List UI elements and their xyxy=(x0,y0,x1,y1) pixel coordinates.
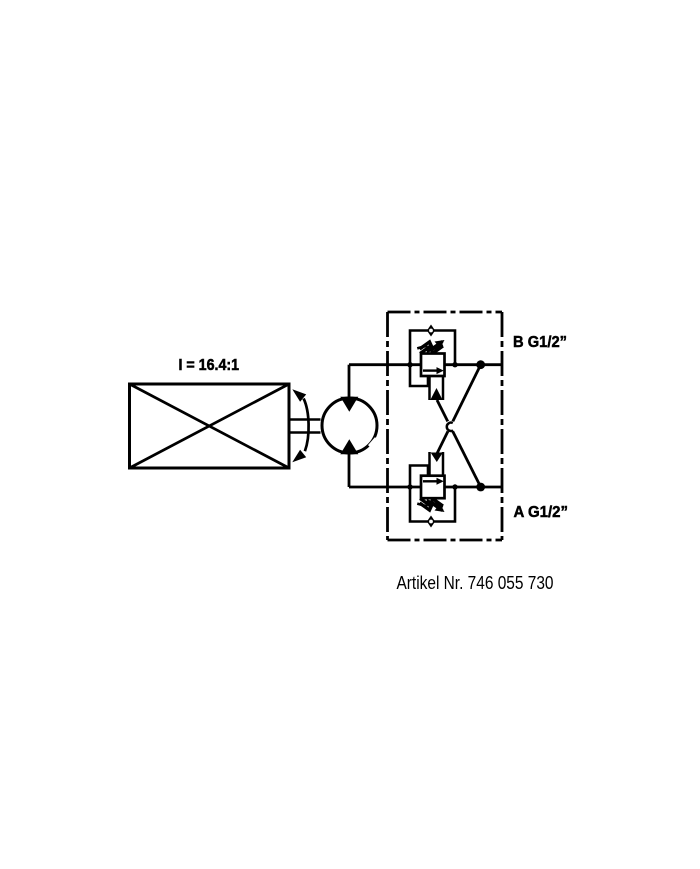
shaft (double line) xyxy=(289,420,321,433)
relief valve V1 body xyxy=(421,354,445,377)
junction node line B xyxy=(476,360,485,369)
valve V1 flow arrow xyxy=(423,367,444,374)
valve V2 bypass loop lower xyxy=(410,487,455,522)
valve V2 drain loop upper xyxy=(410,466,428,488)
junction loop right A xyxy=(452,484,457,489)
relief valve V2 body xyxy=(421,476,445,499)
valve V2 pilot arrow xyxy=(431,453,443,463)
valve V1 pilot arrow xyxy=(430,388,442,400)
svg-text:A G1/2”: A G1/2” xyxy=(514,504,569,521)
motor flow triangle bottom xyxy=(340,439,358,454)
pilot line diagonal 2 (V2 to line B) xyxy=(437,365,481,454)
wire motor bottom riser xyxy=(348,452,351,487)
valve V1 drain loop lower xyxy=(410,365,428,386)
pilot line diagonal 1 (V1 to line A) xyxy=(437,400,481,487)
line jump at crossing xyxy=(445,421,456,432)
wire line A (bottom) xyxy=(349,486,502,489)
junction loop right B xyxy=(452,362,457,367)
valve V1 spring (adjustable) xyxy=(419,340,445,353)
valve V2 spring (adjustable) xyxy=(419,499,445,512)
hydraulic motor M1 (circle) xyxy=(322,398,377,453)
valve V1 pilot channel xyxy=(430,376,444,400)
valve V2 flow arrow xyxy=(423,478,444,485)
bidirectional rotation arrow xyxy=(292,389,308,462)
junction node line A xyxy=(476,483,485,492)
svg-text:I = 16.4:1: I = 16.4:1 xyxy=(179,357,240,374)
svg-text:B G1/2”: B G1/2” xyxy=(513,334,567,351)
junction loop left A xyxy=(407,484,412,489)
wire motor top riser xyxy=(348,365,351,399)
check valve C1 xyxy=(427,325,435,337)
wire line B (top) xyxy=(349,363,502,366)
junction loop left B xyxy=(407,362,412,367)
motor flow triangle top xyxy=(340,397,358,412)
gearbox label I = 16.4:1 xyxy=(179,357,240,374)
valve block enclosure (dash-dot) xyxy=(388,312,503,540)
valve V2 pilot channel xyxy=(430,452,444,476)
valve V1 bypass loop upper xyxy=(410,331,455,365)
svg-text:Artikel Nr. 746 055 730: Artikel Nr. 746 055 730 xyxy=(397,573,554,593)
gearbox G1 (crossed rectangle) xyxy=(130,384,290,468)
check valve C2 xyxy=(427,516,435,528)
